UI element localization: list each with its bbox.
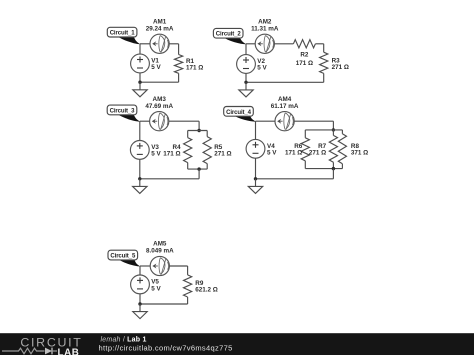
wire node to AM4 xyxy=(256,120,276,122)
wire down to top bar c4 xyxy=(332,121,334,130)
resistor R9 xyxy=(184,275,192,297)
svg-text:LAB: LAB xyxy=(58,347,80,355)
resistor R6 xyxy=(301,138,309,161)
label AM2 name/value xyxy=(251,19,279,33)
ground GND c3 xyxy=(133,179,147,194)
wire R1 top lead xyxy=(178,44,180,55)
wire R1 bottom lead xyxy=(178,73,180,82)
svg-text:271 Ω: 271 Ω xyxy=(332,64,349,71)
wire R7 bottom lead xyxy=(332,162,334,168)
ground GND c2 xyxy=(239,82,253,97)
label R4 name/value xyxy=(163,144,181,158)
node junction c2 bottom xyxy=(244,81,247,84)
svg-text:29.24 mA: 29.24 mA xyxy=(146,26,174,33)
ammeter AM2 xyxy=(255,34,274,53)
svg-text:271 Ω: 271 Ω xyxy=(309,150,326,157)
wire down from bottom bar c4 xyxy=(332,169,334,179)
svg-text:lemah / Lab 1: lemah / Lab 1 xyxy=(101,336,147,343)
wire node to AM2 xyxy=(246,43,255,45)
node junction c3 top bar xyxy=(197,129,200,132)
wire node to V3 top xyxy=(139,121,141,140)
wire R4 bottom lead xyxy=(187,163,189,170)
wire node to V2 top xyxy=(245,44,247,55)
node label Circuit_2 xyxy=(213,28,246,44)
svg-text:8.049 mA: 8.049 mA xyxy=(146,248,174,255)
wire bottom rail c2 xyxy=(246,81,324,83)
svg-text:Circuit_2: Circuit_2 xyxy=(216,32,242,38)
svg-text:621.2 Ω: 621.2 Ω xyxy=(195,287,218,294)
svg-text:AM2: AM2 xyxy=(258,19,272,26)
label R2 name/value xyxy=(296,52,313,67)
wire R8 top lead xyxy=(341,130,343,134)
label V1 name/value xyxy=(151,58,161,72)
wire node to AM3 xyxy=(140,120,150,122)
voltage source V5 xyxy=(131,275,150,294)
svg-text:AM4: AM4 xyxy=(278,96,292,103)
wire V2 bottom to rail xyxy=(245,73,247,82)
ammeter AM5 xyxy=(150,256,169,275)
node junction c4 top bar xyxy=(332,128,335,131)
ammeter AM1 xyxy=(150,34,169,53)
resistor R1 xyxy=(175,55,183,74)
svg-text:271 Ω: 271 Ω xyxy=(214,150,231,157)
svg-text:171 Ω: 171 Ω xyxy=(186,64,203,71)
resistor R4 xyxy=(184,138,192,163)
wire V1 bottom to rail xyxy=(139,73,141,82)
svg-text:371 Ω: 371 Ω xyxy=(351,150,368,157)
wire AM4 to parallel xyxy=(294,120,333,122)
voltage source V4 xyxy=(246,139,265,158)
resistor R5 xyxy=(203,137,211,164)
wire R8 bottom lead xyxy=(341,164,343,169)
wire AM2 to R2 xyxy=(274,43,293,45)
wire down to top bar c3 xyxy=(198,121,200,130)
ammeter AM3 xyxy=(150,112,169,131)
wire bottom bar c4 xyxy=(305,168,342,170)
svg-text:47.69 mA: 47.69 mA xyxy=(145,103,173,110)
wire R3 bottom lead xyxy=(323,73,325,82)
node junction c4 bottom xyxy=(254,177,257,180)
label V2 name/value xyxy=(257,58,267,72)
wire R5 top lead xyxy=(206,131,208,137)
node junction c3 bottom bar xyxy=(197,167,200,170)
label R1 name/value xyxy=(186,58,203,72)
svg-text:Circuit_3: Circuit_3 xyxy=(110,108,136,114)
resistor R8 xyxy=(338,134,346,164)
svg-text:5 V: 5 V xyxy=(151,64,161,71)
wire down from bottom bar c3 xyxy=(198,169,200,179)
svg-text:5 V: 5 V xyxy=(267,150,277,157)
svg-text:AM5: AM5 xyxy=(153,241,167,248)
voltage source V2 xyxy=(237,55,256,74)
svg-text:11.31 mA: 11.31 mA xyxy=(251,26,279,33)
resistor R2 xyxy=(293,40,315,48)
svg-text:5 V: 5 V xyxy=(257,65,267,72)
node label Circuit_3 xyxy=(107,105,140,122)
wire R5 bottom lead xyxy=(206,164,208,170)
footer bar xyxy=(0,333,474,355)
wire node to AM5 xyxy=(140,265,150,267)
svg-text:AM1: AM1 xyxy=(153,19,167,26)
wire R3 top lead xyxy=(323,44,325,52)
wire node to V5 top xyxy=(139,266,141,275)
wire R9 top lead xyxy=(187,266,189,275)
wire top bar c3 xyxy=(188,130,208,132)
wire AM5 to R9 xyxy=(169,265,187,267)
wire AM1 to R1 xyxy=(169,43,178,45)
wire node to AM1 xyxy=(140,43,150,45)
svg-text:Circuit_1: Circuit_1 xyxy=(110,31,136,37)
wire R4 top lead xyxy=(187,131,189,138)
node junction c1 bottom xyxy=(138,81,141,84)
node junction c4 bottom bar xyxy=(332,167,335,170)
node label Circuit_4 xyxy=(224,107,256,122)
label AM1 name/value xyxy=(146,19,174,33)
wire R6 bottom lead xyxy=(304,161,306,169)
label R3 name/value xyxy=(332,57,349,71)
label R5 name/value xyxy=(214,144,231,158)
ammeter AM4 xyxy=(275,112,294,131)
wire bottom bar c3 xyxy=(188,168,208,170)
label R7 name/value xyxy=(309,143,327,157)
wire R7 top lead xyxy=(332,130,334,136)
logo diode symbol xyxy=(45,348,52,355)
wire bottom rail c4 xyxy=(256,178,334,180)
label R8 name/value xyxy=(351,143,368,157)
wire V3 bottom to rail xyxy=(139,159,141,179)
resistor R7 xyxy=(329,135,337,162)
label AM5 name/value xyxy=(146,241,174,255)
ground GND c4 xyxy=(248,179,262,194)
svg-text:171 Ω: 171 Ω xyxy=(296,60,313,67)
label V3 name/value xyxy=(151,144,161,158)
node label Circuit_1 xyxy=(107,27,140,44)
ground GND c5 xyxy=(133,304,147,319)
svg-text:171 Ω: 171 Ω xyxy=(163,150,180,157)
wire bottom rail c5 xyxy=(140,303,188,305)
wire V5 bottom to rail xyxy=(139,294,141,304)
label AM4 name/value xyxy=(271,96,299,110)
wire V4 bottom to rail xyxy=(255,158,257,179)
voltage source V1 xyxy=(131,54,150,73)
ground GND c1 xyxy=(133,82,147,97)
wire bottom rail c1 xyxy=(140,81,179,83)
svg-text:5 V: 5 V xyxy=(151,285,161,292)
svg-text:61.17 mA: 61.17 mA xyxy=(271,103,299,110)
voltage source V3 xyxy=(130,141,149,160)
wire bottom rail c3 xyxy=(140,178,199,180)
wire node to V4 top xyxy=(255,121,257,139)
node label Circuit_5 xyxy=(108,250,141,266)
svg-text:AM3: AM3 xyxy=(153,96,167,103)
label R9 name/value xyxy=(195,280,218,294)
svg-text:5 V: 5 V xyxy=(151,150,161,157)
wire top bar c4 xyxy=(305,129,342,131)
logo resistor zigzag xyxy=(2,348,45,354)
wire AM3 to parallel xyxy=(169,120,199,122)
label R6 name/value xyxy=(285,143,303,157)
label V5 name/value xyxy=(151,279,161,293)
resistor R3 xyxy=(320,52,328,73)
svg-text:R2: R2 xyxy=(300,52,309,59)
svg-text:Circuit_4: Circuit_4 xyxy=(226,110,252,116)
svg-text:Circuit_5: Circuit_5 xyxy=(110,254,136,260)
node junction c5 bottom xyxy=(138,302,141,305)
node junction c3 bottom xyxy=(138,177,141,180)
svg-text:171 Ω: 171 Ω xyxy=(285,150,302,157)
wire R9 bottom lead xyxy=(187,297,189,304)
wire node to V1 top xyxy=(139,44,141,54)
wire R2 to corner xyxy=(315,43,323,45)
svg-text:http://circuitlab.com/cw7v6ms4: http://circuitlab.com/cw7v6ms4qz775 xyxy=(99,344,233,353)
label AM3 name/value xyxy=(145,96,173,110)
label V4 name/value xyxy=(267,143,277,157)
wire R6 top lead xyxy=(304,130,306,138)
